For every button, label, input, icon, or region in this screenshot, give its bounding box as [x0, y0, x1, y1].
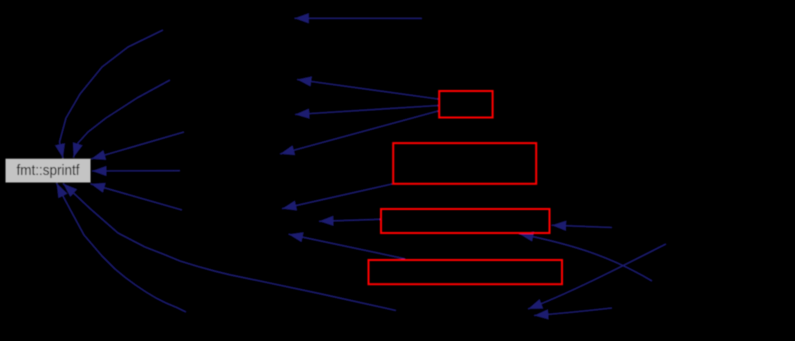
- edge curve A from top node to sprintf: [60, 30, 164, 158]
- edge curve into box3 bottom: [519, 234, 652, 281]
- edge from box1 lower fan: [280, 111, 438, 154]
- red box1: [439, 91, 492, 118]
- edge short into box3 right: [552, 225, 612, 227]
- edge short into bottom node: [534, 308, 612, 316]
- edge from box3 left: [319, 219, 380, 221]
- edge from box1 middle fan: [295, 106, 438, 115]
- edge curve C1 from bottom-left node to sprintf: [57, 183, 187, 312]
- edge N into sprintf bottom-right: [91, 184, 183, 210]
- red box4: [369, 260, 563, 284]
- edge top arrow to invisible node: [294, 17, 422, 19]
- edge from box2 corner: [282, 184, 392, 209]
- node fmt::sprintf: [6, 159, 91, 183]
- red box3: [381, 209, 550, 233]
- red box2: [393, 143, 536, 184]
- edge horizontal into sprintf right: [92, 170, 180, 172]
- edge from box4 top: [289, 234, 406, 259]
- svg-text:fmt::sprintf: fmt::sprintf: [17, 162, 81, 179]
- edge M into sprintf top-right: [91, 132, 184, 159]
- edge long diagonal to bottom node: [528, 244, 666, 309]
- edge from box1 upper fan: [297, 80, 438, 100]
- edge curve C2 from bottom node to sprintf: [63, 184, 396, 311]
- edge curve B to sprintf: [74, 80, 171, 158]
